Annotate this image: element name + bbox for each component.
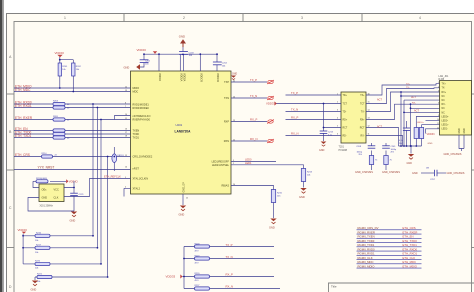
svg-text:RX_P: RX_P [226, 273, 233, 277]
svg-text:LED1: LED1 [245, 161, 252, 165]
svg-text:LED0: LED0 [245, 158, 252, 162]
svg-text:GND: GND [31, 288, 37, 292]
wire RXP [231, 121, 267, 123]
svg-text:ETH_RXD1: ETH_RXD1 [15, 104, 32, 108]
svg-text:TX_P: TX_P [291, 91, 298, 95]
resistor R211 [419, 125, 423, 146]
capacitor C204 [213, 62, 222, 65]
svg-text:X201 25MHz: X201 25MHz [40, 205, 54, 207]
svg-text:TX-: TX- [442, 88, 446, 90]
svg-text:ETH_REFCLK: ETH_REFCLK [104, 175, 121, 179]
window edge strip [0, 0, 2, 292]
wire RCT center tap [324, 104, 342, 132]
power label VDDIO [137, 48, 158, 54]
svg-text:NC: NC [442, 100, 446, 102]
svg-text:MDC: MDC [133, 91, 139, 94]
svg-text:RCT: RCT [360, 127, 365, 129]
wire RX_N to T201 pin6 [286, 135, 342, 137]
resistor R201 [58, 57, 73, 88]
T201 right pin names [360, 95, 365, 137]
wire link to chassis [437, 172, 446, 174]
capacitor C207 [426, 167, 437, 181]
svg-text:GND_CHASSIS: GND_CHASSIS [382, 171, 400, 174]
svg-text:NC: NC [442, 112, 446, 114]
resistor R210 [414, 121, 418, 146]
svg-text:TX_P: TX_P [250, 78, 257, 82]
svg-text:R213: R213 [307, 172, 313, 174]
no-ERC marker RXN [267, 139, 274, 143]
svg-text:VDDCR: VDDCR [199, 73, 202, 82]
op IC U201 LAN8720A body [131, 71, 232, 194]
svg-text:RX-: RX- [442, 104, 446, 106]
trunk vertical RXD0 [92, 104, 94, 236]
svg-text:CRS_DV/MODE2: CRS_DV/MODE2 [133, 156, 153, 159]
wire TX_N to T201 pin3 [286, 111, 342, 113]
junction center tap [323, 103, 325, 129]
wire ETH_MDC row [14, 91, 131, 93]
svg-text:ACT: ACT [377, 125, 382, 128]
trunk junctions bottom [92, 235, 108, 278]
svg-text:GND: GND [232, 74, 237, 76]
svg-text:GND: GND [179, 35, 185, 39]
frame row tick A/B [7, 93, 15, 95]
svg-text:3: 3 [438, 90, 439, 92]
svg-text:12: 12 [437, 127, 439, 129]
svg-text:GND: GND [319, 149, 325, 152]
wire RXN [231, 140, 267, 142]
wire osc CLK to XTAL1 [64, 179, 131, 197]
svg-text:1: 1 [64, 16, 66, 20]
svg-text:XTAL2: XTAL2 [133, 187, 141, 190]
svg-text:RXER/PHYAD0: RXER/PHYAD0 [133, 119, 151, 122]
svg-text:TX_N: TX_N [226, 255, 233, 259]
svg-text:VDD33: VDD33 [266, 102, 275, 106]
svg-text:R221: R221 [37, 274, 43, 276]
ground below R213 [299, 188, 307, 199]
resistor R202 [72, 63, 82, 92]
svg-text:R214: R214 [42, 153, 48, 155]
junction dots VDDIO column [22, 235, 24, 249]
wire J201 GND pins to chassis [459, 135, 464, 151]
resistor R219 [184, 256, 274, 265]
svg-text:GND_EP: GND_EP [183, 182, 186, 193]
wire T201 pin12 down [366, 128, 399, 147]
svg-text:NC: NC [442, 108, 446, 110]
wire ETH_RXD0 row [14, 103, 131, 105]
svg-text:GND: GND [412, 172, 418, 175]
svg-text:GND: GND [269, 226, 275, 230]
wire TXP [231, 81, 267, 83]
svg-text:VDDIO: VDDIO [55, 51, 65, 55]
svg-text:RX-: RX- [361, 135, 365, 137]
capacitor C205 [399, 121, 410, 146]
svg-text:XTAL1/CLKIN: XTAL1/CLKIN [133, 178, 149, 181]
U201 right pin numbers [233, 80, 235, 186]
svg-text:U201: U201 [176, 123, 183, 127]
svg-text:GND: GND [299, 195, 305, 199]
resistor R214 [42, 153, 58, 158]
svg-text:TX_P: TX_P [226, 243, 233, 247]
svg-text:R215: R215 [277, 193, 283, 195]
svg-text:TXN: TXN [224, 97, 229, 100]
wire T201 bottom feeds [372, 143, 387, 156]
resistor R207 [53, 132, 65, 135]
svg-text:NC: NC [442, 96, 446, 98]
svg-text:RBIAS: RBIAS [221, 185, 229, 188]
ground below U201 GND_EP [179, 194, 189, 217]
ferrite bead FB201 [112, 147, 125, 171]
svg-text:R205: R205 [53, 116, 59, 118]
svg-text:nRST: nRST [133, 168, 140, 171]
resistor R215 [271, 190, 283, 219]
ground left of C202 [124, 64, 141, 70]
svg-text:YYX_NRST: YYX_NRST [38, 165, 55, 169]
power label VDDIO at R224 [66, 179, 68, 183]
T201 pin numbers [337, 93, 370, 135]
svg-text:R227: R227 [195, 285, 201, 287]
junction VDDIO split [59, 59, 61, 61]
svg-text:ETH_MDIO: ETH_MDIO [403, 264, 418, 268]
svg-text:C202: C202 [145, 61, 151, 63]
svg-text:GND_CHASSIS: GND_CHASSIS [444, 153, 462, 156]
wire YYX_NRST row [14, 169, 131, 171]
svg-text:VDDIO: VDDIO [69, 179, 79, 183]
trunk vertical CRS [107, 157, 109, 278]
ground at U201 top-right corner [231, 74, 238, 80]
capacitor C221 at oscillator [70, 193, 84, 196]
junction dots trunk [400, 91, 417, 147]
junction R201-MDIO [59, 87, 61, 89]
svg-text:11: 11 [437, 123, 439, 125]
no-ERC marker RXP [267, 120, 274, 124]
svg-text:LED1+: LED1+ [442, 125, 450, 127]
junction R202-MDC [72, 91, 74, 93]
frame column tick 2/3 [242, 14, 244, 22]
svg-text:10: 10 [125, 167, 127, 169]
ground below R221 [31, 281, 39, 292]
svg-text:VDD1A: VDD1A [179, 73, 182, 82]
resistor R213 [301, 169, 313, 188]
svg-text:GND: GND [179, 213, 185, 217]
svg-text:LED0+: LED0+ [442, 116, 450, 118]
svg-text:OEx: OEx [42, 189, 48, 192]
wire chassis drops [372, 169, 387, 171]
svg-text:ACT: ACT [377, 98, 382, 101]
svg-text:GND: GND [459, 128, 461, 133]
wire TXN [231, 97, 267, 99]
svg-text:VDDIO: VDDIO [137, 48, 147, 52]
wire gnd link [421, 172, 434, 174]
U201 top pin names vertical [158, 73, 219, 82]
resistor R231 [384, 156, 393, 169]
svg-text:GND_CHASSIS: GND_CHASSIS [447, 172, 465, 175]
wire T201 pin15 to J201 TX- [366, 88, 440, 104]
svg-text:ETH_CRS: ETH_CRS [15, 153, 30, 157]
svg-text:ETH_RXER: ETH_RXER [15, 116, 33, 120]
svg-text:18: 18 [125, 135, 127, 137]
svg-text:R219: R219 [195, 256, 201, 258]
svg-text:R201: R201 [62, 66, 68, 68]
wire trunk branch RX+ down [400, 92, 402, 146]
resistor R217 [23, 244, 97, 253]
svg-text:TCT: TCT [360, 103, 365, 105]
resistor R208 [53, 136, 70, 140]
power label VDD33 bottom [166, 247, 185, 289]
svg-text:25: 25 [186, 198, 188, 200]
wire ETH_EN row [14, 130, 131, 132]
svg-text:VDDIO: VDDIO [158, 73, 161, 81]
title block [329, 283, 474, 292]
svg-text:HX1188: HX1188 [339, 149, 348, 152]
svg-text:TX+: TX+ [442, 84, 447, 86]
svg-text:GND: GND [124, 66, 130, 70]
wire bottom bus to ground [399, 146, 422, 154]
svg-text:R203: R203 [53, 101, 59, 103]
ground below C213 [319, 142, 326, 153]
wire RX_P to T201 pin4 [286, 119, 342, 121]
svg-text:ETH_MDC: ETH_MDC [15, 88, 31, 92]
wire J201 pin4 termination [401, 95, 440, 97]
junction CRS-FB [113, 156, 115, 158]
svg-text:4: 4 [419, 16, 421, 20]
svg-text:R226: R226 [35, 261, 41, 263]
svg-text:TD+: TD+ [343, 95, 348, 97]
wire ETH_TXD0 row [14, 133, 131, 135]
no-ERC marker TXP [267, 80, 274, 84]
wire T201 pin16 to J201 TX+ [366, 84, 440, 95]
svg-text:VCC: VCC [54, 189, 59, 192]
capacitor C209 [382, 146, 397, 154]
svg-text:RX_N: RX_N [291, 132, 298, 136]
wire LED1 [231, 161, 276, 163]
resistor R224 [33, 178, 66, 188]
resistor R218 [184, 244, 274, 253]
wire T201 pin13 to J201 RX- [366, 104, 440, 119]
svg-text:9: 9 [438, 115, 439, 117]
resistor R205 [53, 116, 70, 121]
resistor R206 [53, 129, 65, 132]
svg-text:3: 3 [301, 16, 303, 20]
svg-text:R217: R217 [36, 244, 42, 246]
svg-text:LED0-: LED0- [442, 121, 449, 123]
resistor R226 [23, 261, 101, 270]
svg-text:TX_N: TX_N [250, 94, 257, 98]
svg-text:TX-: TX- [406, 87, 410, 89]
svg-text:RX_P: RX_P [291, 116, 298, 120]
frame right ticks [472, 94, 474, 248]
wire ETH_CRS row [14, 156, 131, 158]
resistor R221 [35, 274, 108, 283]
wire ETH_RXD1 row [14, 107, 131, 109]
oscillator X201 body [39, 184, 64, 207]
svg-text:C221: C221 [79, 194, 85, 196]
svg-text:RX+: RX+ [442, 92, 447, 94]
svg-text:RXD0/MODE0: RXD0/MODE0 [133, 107, 150, 110]
svg-text:VDD2A: VDD2A [183, 73, 186, 82]
power label VDDIO bottom-left [18, 228, 28, 264]
svg-text:R216: R216 [36, 232, 42, 234]
svg-text:GND: GND [428, 143, 433, 145]
capacitor C208 [356, 146, 375, 156]
svg-text:TCT: TCT [343, 103, 348, 105]
svg-text:VDD33: VDD33 [427, 133, 436, 136]
wire trunk branch RX- down [410, 104, 412, 146]
wire XTAL2 stub [124, 188, 131, 196]
svg-text:RD-: RD- [343, 135, 347, 137]
ground below bus [407, 154, 415, 165]
no-ERC marker TXN [267, 96, 274, 100]
svg-text:R202: R202 [76, 66, 82, 68]
svg-text:RX+: RX+ [360, 119, 365, 121]
resistor R203 [53, 101, 70, 106]
svg-text:C297: C297 [430, 179, 436, 181]
frame column tick 3/4 [361, 14, 363, 22]
svg-text:ACT: ACT [414, 109, 419, 112]
svg-text:GND: GND [70, 219, 76, 223]
resistor R230 [369, 156, 378, 169]
wire ETH_MDIO row [14, 87, 131, 89]
frame row tick B/C [7, 169, 15, 171]
power rail above U201 [140, 45, 218, 71]
svg-text:2: 2 [438, 86, 439, 88]
svg-text:ACT: ACT [411, 96, 416, 99]
U201 left pin names [133, 87, 153, 190]
svg-text:RXN: RXN [224, 140, 229, 143]
U201 left pin numbers [125, 86, 127, 188]
junction dots termination [183, 258, 185, 278]
wire osc GND bus [28, 196, 74, 211]
wire TX_P to T201 pin1 [286, 94, 342, 96]
svg-text:VDD33: VDD33 [166, 275, 176, 279]
wire J201 pin7 termination [411, 107, 440, 109]
svg-text:ETH_TXD1: ETH_TXD1 [15, 134, 32, 138]
wire T201 pin14 to J201 RX+ [366, 92, 440, 112]
svg-text:R224(0603): R224(0603) [36, 178, 47, 180]
svg-text:RX_N: RX_N [250, 137, 257, 141]
trunk vertical RXER [100, 120, 102, 264]
svg-text:TX_N: TX_N [291, 108, 298, 112]
svg-text:RXP: RXP [224, 121, 229, 124]
resistor R216 [23, 232, 93, 241]
svg-text:C213: C213 [328, 132, 334, 134]
J201 GND pin names vertical [459, 128, 466, 133]
svg-text:GND: GND [407, 162, 413, 165]
svg-text:RGMII_MDIO: RGMII_MDIO [358, 264, 376, 268]
svg-text:GND: GND [42, 197, 48, 200]
capacitor C202 [140, 60, 149, 63]
svg-text:CLK: CLK [54, 197, 59, 200]
wire ETH_RXER row [14, 116, 131, 120]
svg-text:GND_CHASSIS: GND_CHASSIS [355, 171, 373, 174]
svg-text:1000p: 1000p [391, 149, 397, 151]
wire J201 pin8 termination [404, 111, 440, 113]
svg-text:R218: R218 [195, 244, 201, 246]
ground above C203 [179, 35, 186, 48]
svg-text:RX_N: RX_N [226, 285, 233, 289]
svg-text:17: 17 [125, 132, 127, 134]
wire LED pins to trunk [416, 117, 439, 134]
wire J201 pin5 termination [404, 100, 440, 146]
svg-text:TX+: TX+ [406, 84, 411, 86]
wire osc VCC to cap [64, 181, 74, 193]
ground below oscillator [70, 212, 78, 223]
svg-text:RCT: RCT [343, 127, 348, 129]
junction osc vcc [73, 187, 75, 189]
resistor R220 [184, 273, 274, 282]
wire RBIAS [231, 186, 274, 190]
row letters [9, 55, 12, 289]
column numbers [64, 16, 421, 20]
wire VDD33 center tap [276, 103, 341, 105]
capacitor C203 [179, 52, 188, 55]
svg-text:TXP: TXP [224, 81, 229, 84]
trunk junctions top [92, 103, 108, 157]
svg-text:C204: C204 [222, 63, 228, 65]
U201 right pin names [212, 81, 230, 188]
svg-text:LED2/nINTSEL: LED2/nINTSEL [212, 164, 230, 167]
svg-text:GND: GND [464, 128, 466, 133]
svg-text:RX-: RX- [412, 103, 416, 105]
svg-text:RD+: RD+ [343, 119, 348, 121]
svg-text:R220: R220 [195, 273, 201, 275]
J201 pin names [442, 84, 450, 131]
frame column tick 1/2 [123, 14, 125, 22]
svg-text:TD-: TD- [343, 111, 347, 113]
wire ETH_TXD1 row [14, 137, 131, 139]
svg-text:LED1-: LED1- [442, 129, 449, 131]
svg-text:2: 2 [183, 16, 185, 20]
ground below R215 [269, 219, 277, 230]
J201 pin numbers [437, 82, 439, 129]
junction dots termination trunk [400, 95, 411, 147]
T201 left pin names [343, 95, 348, 137]
svg-text:1M: 1M [426, 167, 429, 169]
svg-text:C203: C203 [189, 52, 195, 54]
transformer T201 body [339, 92, 367, 152]
power label VDDIO above R201 R202 [55, 51, 65, 57]
svg-text:6: 6 [438, 103, 439, 105]
wire LED2 [231, 165, 304, 169]
junction dots on rail [143, 53, 218, 55]
svg-text:TXD1: TXD1 [133, 136, 140, 139]
frame row tick C/D [7, 247, 15, 249]
svg-text:VDDIO: VDDIO [18, 228, 28, 232]
svg-text:10: 10 [437, 119, 439, 121]
svg-text:VDDCR: VDDCR [216, 73, 219, 82]
connector J201 LAN_J01 body [439, 75, 472, 135]
capacitor C213 center tap [320, 131, 334, 141]
svg-text:Title: Title [331, 285, 337, 289]
svg-text:1000p: 1000p [356, 151, 362, 153]
svg-text:16: 16 [125, 128, 127, 130]
wire T201 pin11 down [366, 136, 403, 147]
trunk vertical RXD1 [96, 108, 98, 248]
svg-text:RX_P: RX_P [250, 118, 257, 122]
svg-text:FB201: FB201 [118, 155, 125, 157]
svg-text:TX-: TX- [361, 111, 365, 113]
resistor R204 [53, 106, 70, 110]
svg-text:LAN8720A: LAN8720A [175, 130, 192, 134]
resistor R227 [184, 285, 280, 290]
svg-text:1: 1 [438, 82, 439, 84]
svg-text:TX+: TX+ [360, 95, 365, 97]
svg-text:LED0+: LED0+ [417, 122, 424, 124]
